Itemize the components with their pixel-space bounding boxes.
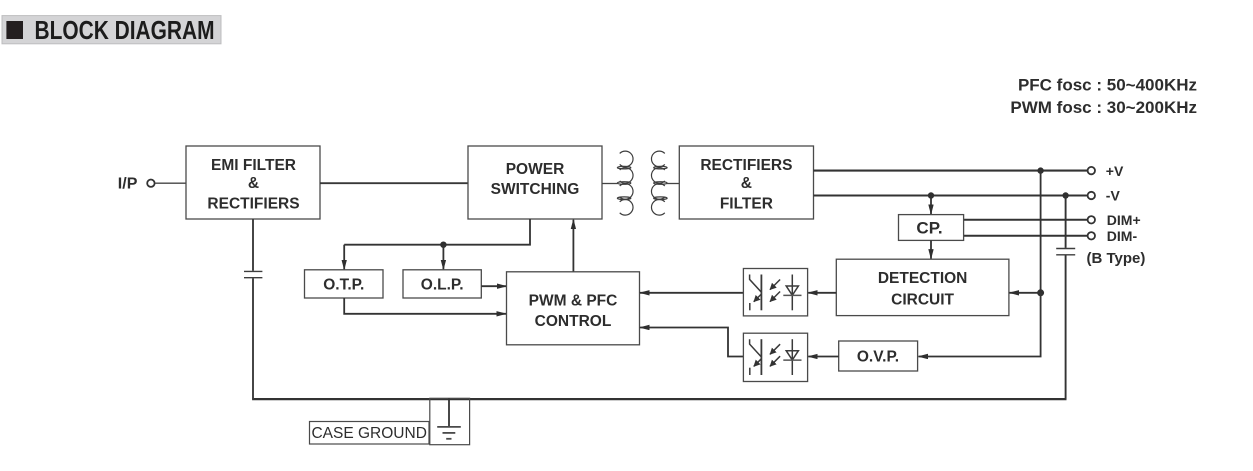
wire O.V.P. to opto U2 with arrow [808,356,839,358]
capacitor C2 [1056,249,1075,255]
wire capacitor C1 to ground rail [252,278,254,399]
svg-text:FILTER: FILTER [720,195,773,212]
junction on +V rail [1037,167,1043,173]
block O.L.P. [403,270,481,298]
svg-text:(B Type): (B Type) [1087,250,1146,267]
wire -V branch down to capacitor [1065,196,1067,248]
svg-text:RECTIFIERS: RECTIFIERS [207,195,299,212]
block CP. [899,215,964,241]
junction on -V rail at capacitor branch [1062,192,1068,198]
svg-text:&: & [741,175,752,192]
block PWM & PFC CONTROL [507,272,640,345]
svg-text:PFC fosc : 50~400KHz: PFC fosc : 50~400KHz [1018,75,1197,94]
wire -V branch to CP with arrow [930,196,932,215]
block POWER SWITCHING [468,146,602,219]
block EMI FILTER & RECTIFIERS [186,146,320,219]
capacitor C1 [244,271,262,277]
svg-text:DIM-: DIM- [1107,228,1138,244]
ground rail [252,398,1066,400]
svg-text:DETECTION: DETECTION [878,270,968,287]
wire +V branch to OVP with arrow [919,293,1041,357]
wire DIM- [964,235,1088,237]
wire opto U2 to PWM control with arrow [640,328,743,357]
junction on feed line [440,242,446,248]
wire transformer to RECTIFIERS [667,183,680,185]
wire -V rail [814,194,1088,196]
wire +V rail [814,170,1088,172]
svg-text:I/P: I/P [118,176,138,193]
transformer T1 secondary winding [651,151,667,215]
title bar [2,15,221,45]
wire EMI to POWER SWITCHING [320,182,468,184]
svg-text:DIM+: DIM+ [1107,212,1141,228]
wire O.L.P. to PWM control with arrow [481,285,506,287]
wire CP to DETECTION with arrow [930,240,932,258]
ground [437,398,461,439]
ground symbol box [430,398,470,444]
svg-text:SWITCHING: SWITCHING [491,181,580,198]
svg-text:CIRCUIT: CIRCUIT [891,292,954,309]
svg-text:&: & [248,175,259,192]
wire opto U1 to PWM control with arrow [640,292,743,294]
terminal DIM+ [1088,212,1141,228]
wire DIM+ [964,219,1088,221]
junction at detection branch [1037,289,1044,296]
wire PWM control to POWER SWITCHING with arrow [572,220,574,272]
wire POWER SWITCHING to OTP/OLP feed [344,219,530,245]
wire EMI to capacitor C1 [252,219,254,271]
terminal I/P [118,176,155,193]
wire POWER SWITCHING to transformer [602,183,618,185]
wire arrow into O.L.P. top [442,245,444,270]
svg-text:PWM fosc : 30~200KHz: PWM fosc : 30~200KHz [1010,98,1197,117]
terminal +V [1088,163,1124,179]
svg-text:BLOCK DIAGRAM: BLOCK DIAGRAM [35,15,215,45]
wire arrow into DETECTION right [1010,292,1041,294]
svg-text:O.T.P.: O.T.P. [323,276,364,293]
svg-text:CONTROL: CONTROL [535,313,612,330]
terminal -V [1088,188,1121,204]
svg-text:-V: -V [1106,188,1121,204]
wire +V branch down [1040,171,1042,293]
transformer T1 primary winding [617,151,633,215]
svg-text:PWM & PFC: PWM & PFC [529,293,618,310]
svg-text:RECTIFIERS: RECTIFIERS [700,157,792,174]
svg-text:CP.: CP. [916,218,942,237]
block O.T.P. [305,270,384,298]
junction on -V rail at CP branch [928,192,934,198]
svg-text:O.V.P.: O.V.P. [857,348,899,365]
svg-text:EMI FILTER: EMI FILTER [211,157,296,174]
terminal DIM- [1088,228,1138,244]
wire capacitor C2 to ground rail [1065,255,1067,399]
opto-coupler U1 [743,269,807,316]
svg-text:O.L.P.: O.L.P. [421,276,464,293]
block RECTIFIERS & FILTER [679,146,813,219]
svg-text:CASE GROUND: CASE GROUND [311,425,426,442]
block DETECTION CIRCUIT [836,259,1009,315]
svg-text:+V: +V [1106,163,1124,179]
wire I/P to EMI [155,182,186,184]
block O.V.P. [839,341,918,371]
svg-text:POWER: POWER [506,161,565,178]
block CASE GROUND label [310,422,430,445]
opto-coupler U2 [743,333,807,381]
wire O.T.P. to PWM control with arrow [344,298,506,314]
wire arrow into O.T.P. top [343,245,345,270]
wire DETECTION to opto U1 with arrow [808,292,836,294]
